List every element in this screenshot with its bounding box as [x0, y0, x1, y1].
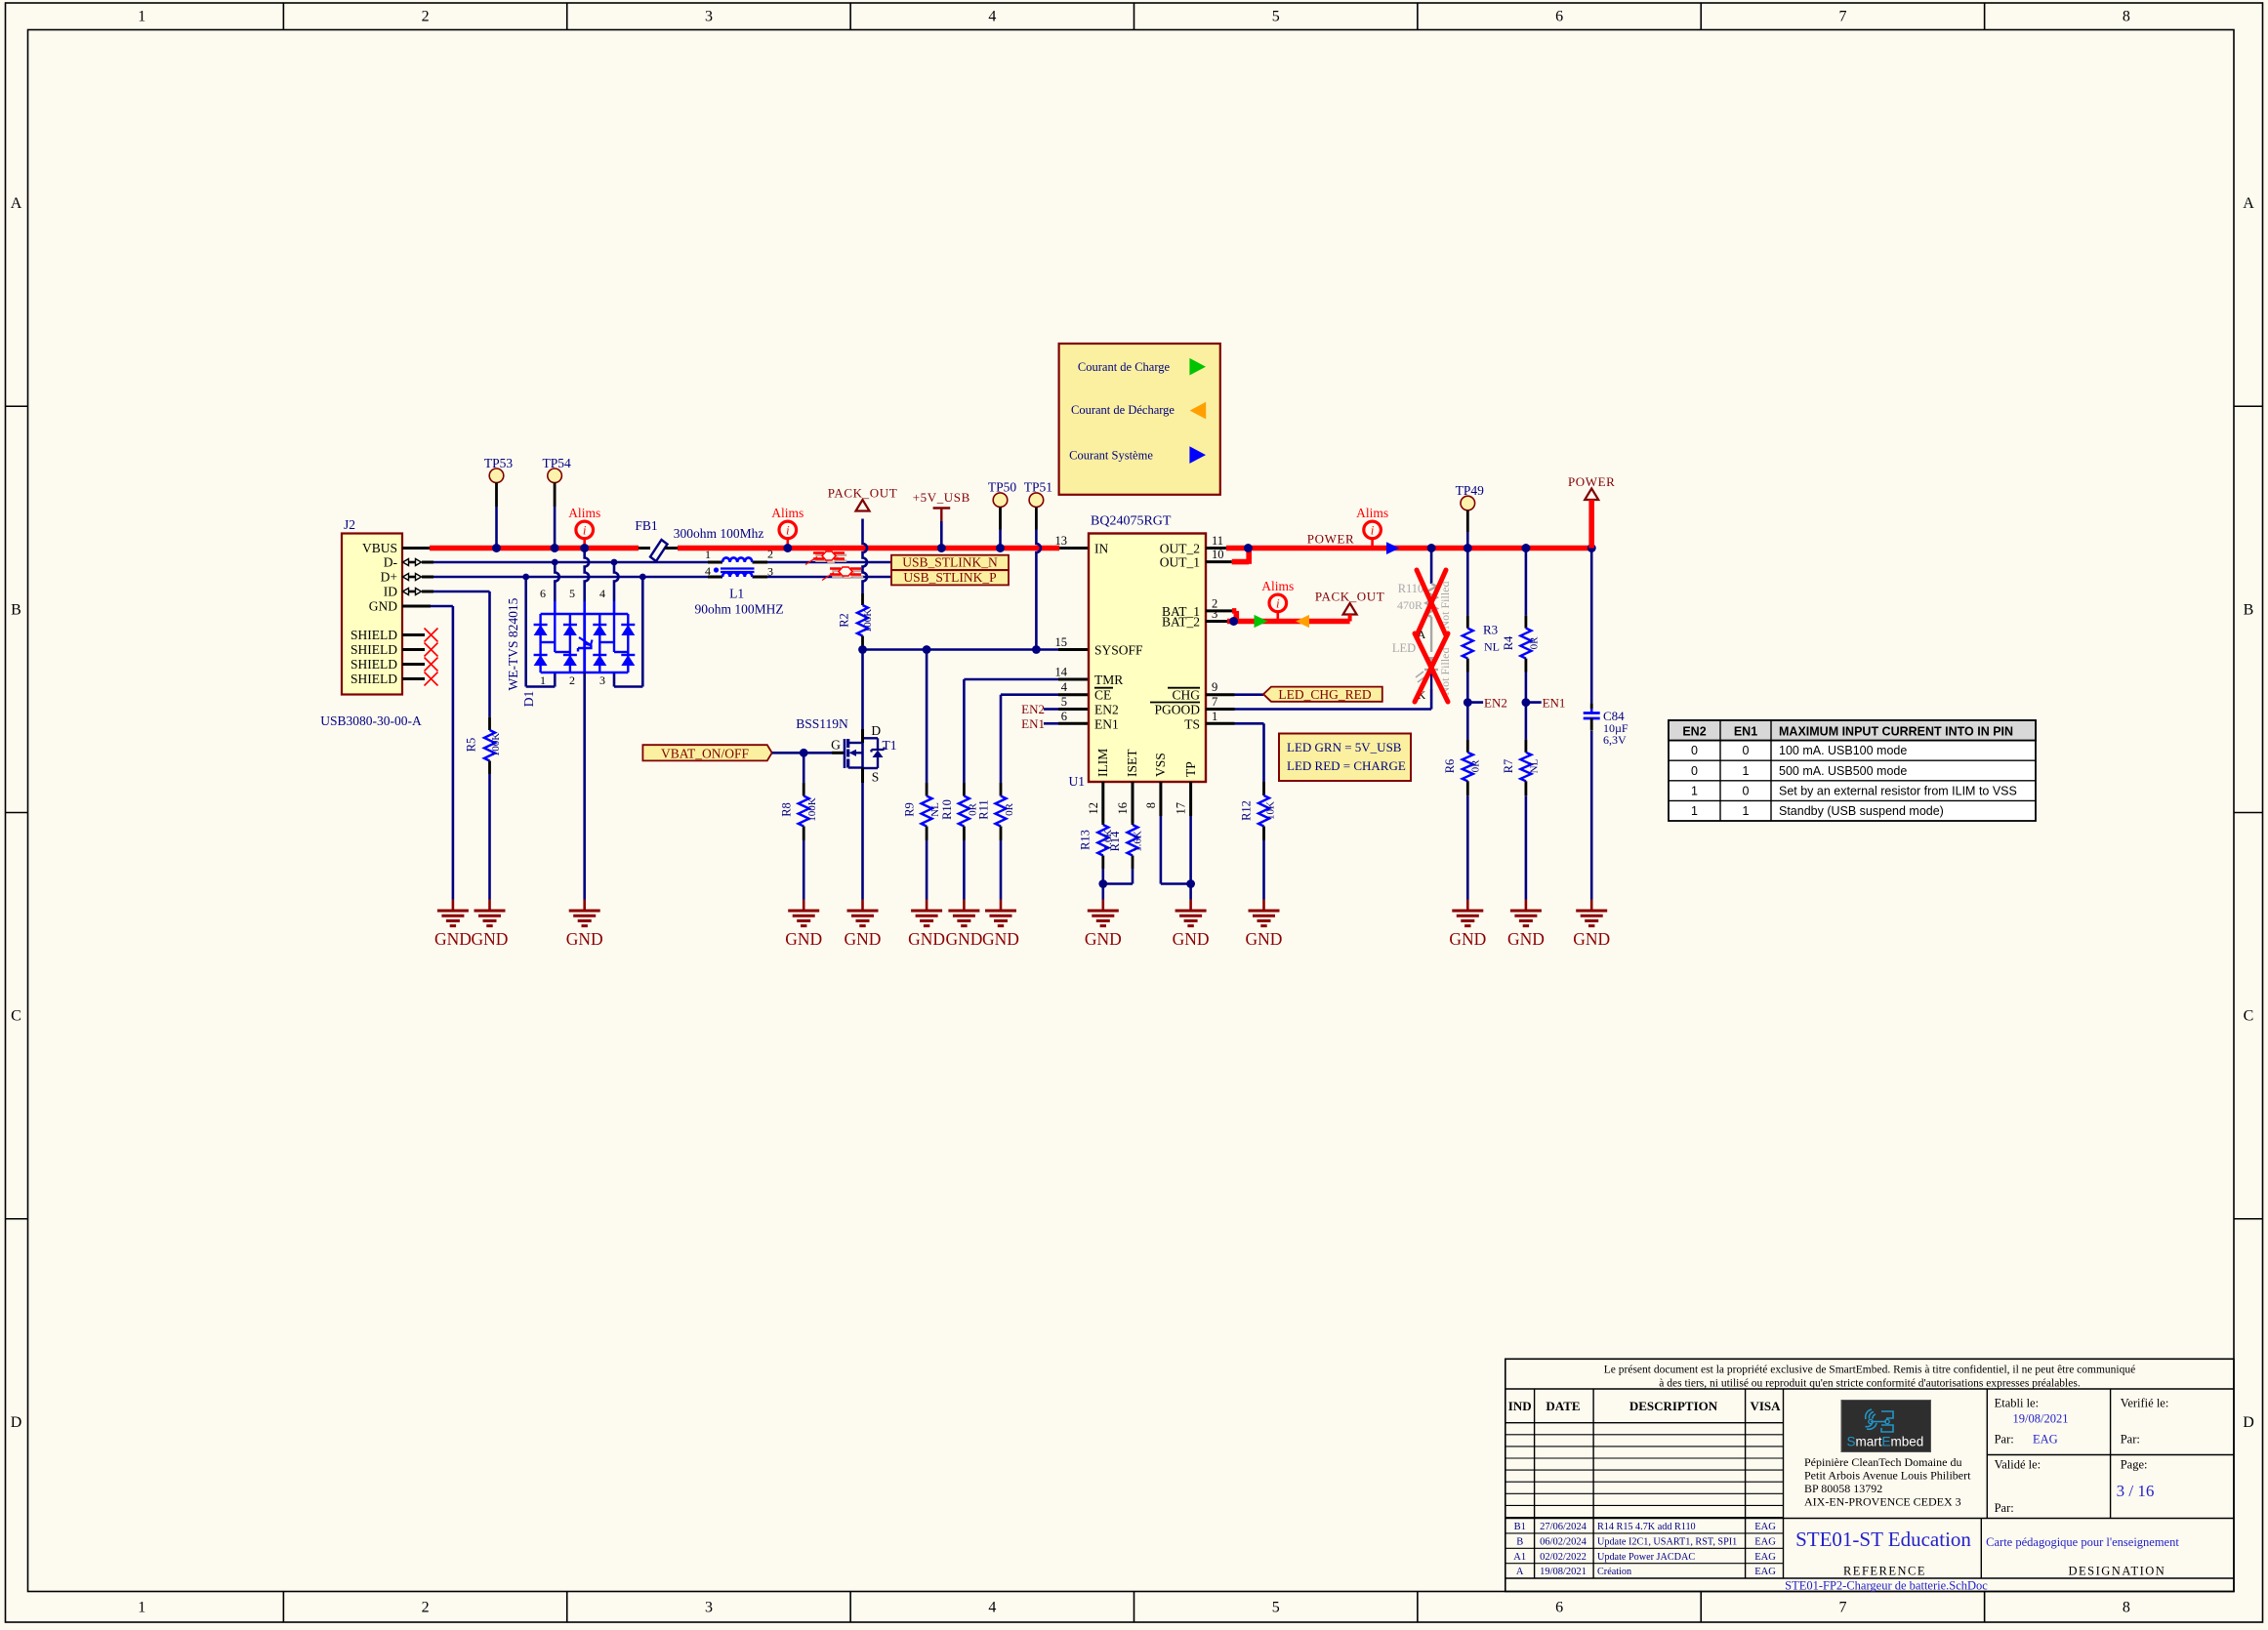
test point TP54 [542, 456, 571, 549]
net flag LED_CHG_RED [1263, 687, 1382, 702]
differential pair directive on D- [815, 555, 846, 561]
junction TP50/bus [996, 544, 1005, 552]
transistor T1 BSS119N [796, 716, 896, 785]
svg-text:GND: GND [472, 929, 509, 949]
title block [1505, 1359, 2234, 1592]
net label USB_STLINK_N [891, 555, 1009, 570]
ground R10 [963, 900, 966, 912]
wire VSS to ground node [1161, 816, 1191, 884]
svg-text:GND: GND [785, 929, 822, 949]
svg-text:5: 5 [1272, 1600, 1280, 1616]
junction BAT_1/BAT_2 [1229, 617, 1238, 626]
svg-text:7: 7 [1838, 9, 1846, 25]
svg-text:1: 1 [540, 673, 546, 687]
resistor R12 10K [1239, 782, 1276, 840]
svg-text:PGOOD: PGOOD [1154, 703, 1200, 717]
resistor R5 100K [465, 717, 503, 774]
test point TP49 [1456, 483, 1485, 549]
svg-text:D+: D+ [381, 570, 397, 585]
wire PGOOD to LED cathode [1235, 689, 1432, 710]
wire R13/R14 to ground [1103, 869, 1133, 900]
U1 pin 14 TMR stub [1058, 678, 1089, 681]
svg-text:R14 R15 4.7K add R110: R14 R15 4.7K add R110 [1597, 1522, 1696, 1532]
junction TP54/VBUS [551, 544, 559, 552]
svg-text:R7: R7 [1502, 759, 1515, 774]
svg-text:R14: R14 [1108, 831, 1122, 852]
svg-text:Courant Système: Courant Système [1069, 449, 1153, 463]
svg-text:DATE: DATE [1546, 1399, 1580, 1413]
logo SmartEmbed [1841, 1401, 1931, 1452]
D1 bottom-right wire [614, 672, 642, 687]
svg-text:7: 7 [1212, 695, 1217, 709]
svg-text:SYSOFF: SYSOFF [1094, 643, 1143, 658]
junction SYSOFF/R2 [858, 645, 867, 654]
U1 pin 12 ILIM stub [1101, 782, 1104, 823]
wire R2 to SYSOFF node [861, 648, 864, 650]
svg-text:1: 1 [1691, 804, 1698, 818]
svg-text:1: 1 [1743, 804, 1750, 818]
svg-text:Etabli le:: Etabli le: [1995, 1397, 2039, 1410]
svg-text:Courant de Charge: Courant de Charge [1078, 360, 1171, 374]
svg-text:Set by an external resistor fr: Set by an external resistor from ILIM to… [1779, 784, 2017, 797]
svg-text:100 mA. USB100 mode: 100 mA. USB100 mode [1779, 744, 1907, 757]
svg-text:D: D [2243, 1414, 2254, 1431]
svg-text:12: 12 [1087, 802, 1100, 815]
svg-text:2: 2 [767, 548, 773, 561]
svg-text:L1: L1 [729, 587, 744, 601]
U1 pin 9 CHG stub [1206, 693, 1235, 696]
svg-text:3: 3 [599, 673, 605, 687]
J2 SHIELD pin stub 4 [402, 677, 425, 680]
svg-text:Verifié le:: Verifié le: [2121, 1397, 2169, 1410]
svg-text:R10: R10 [940, 799, 954, 820]
wire R6 to ground [1466, 795, 1469, 899]
wire BAT red (PACK_OUT) [1227, 619, 1350, 625]
ground R6 [1466, 900, 1469, 912]
wire J2 ID down to R5 [433, 591, 490, 717]
svg-text:Par:: Par: [1995, 1501, 2014, 1515]
svg-text:4: 4 [1061, 680, 1068, 694]
ground R9 [926, 900, 928, 912]
J2 pin GND stub [402, 605, 431, 608]
svg-text:9: 9 [1212, 680, 1217, 694]
svg-text:SHIELD: SHIELD [351, 642, 397, 657]
svg-text:R3: R3 [1483, 623, 1498, 637]
U1 pin 10 OUT_1 stub [1206, 560, 1232, 563]
wire TP to ground [1189, 816, 1192, 900]
svg-text:10K: 10K [1265, 801, 1277, 820]
wire gate to R8 [803, 753, 805, 783]
net label EN1 stub [1526, 696, 1566, 711]
wire R3 to EN2 node [1466, 672, 1469, 703]
svg-text:3: 3 [767, 565, 773, 579]
svg-text:1: 1 [138, 9, 145, 25]
svg-text:GND: GND [1573, 929, 1610, 949]
wire R9 top [926, 650, 928, 784]
svg-text:11: 11 [1212, 534, 1223, 548]
J2 pin VBUS stub [402, 547, 431, 550]
svg-text:3: 3 [705, 9, 713, 25]
svg-text:D: D [11, 1414, 22, 1431]
current arrow orange (decharge) [1296, 615, 1309, 628]
wire bus to R4 [1525, 549, 1528, 616]
svg-text:i: i [583, 523, 587, 538]
junction Alims/VBUS [580, 544, 589, 552]
svg-text:27/06/2024: 27/06/2024 [1540, 1522, 1588, 1532]
table EN2/EN1 input current modes [1669, 720, 2036, 821]
svg-text:SHIELD: SHIELD [351, 657, 397, 672]
svg-text:R12: R12 [1239, 800, 1253, 821]
svg-text:GND: GND [1173, 929, 1210, 949]
wire VBAT_ON/OFF to T1 gate [772, 752, 832, 754]
legend box current arrows [1059, 344, 1220, 495]
wire R11 to ground [1000, 840, 1003, 900]
wire EN2 node to R6 [1466, 703, 1469, 740]
svg-text:EN2: EN2 [1094, 703, 1119, 717]
connector J2 [320, 517, 422, 728]
svg-text:Standby (USB suspend mode): Standby (USB suspend mode) [1779, 804, 1944, 818]
ground R11 [1000, 900, 1003, 912]
U1 pin 2 BAT_1 stub [1206, 609, 1232, 612]
svg-text:i: i [786, 523, 790, 538]
svg-text:R6: R6 [1443, 759, 1457, 774]
svg-text:POWER: POWER [1307, 532, 1355, 547]
current arrow blue (courant systeme) on POWER [1386, 542, 1400, 554]
svg-text:5: 5 [1272, 9, 1280, 25]
svg-text:D-: D- [384, 555, 398, 570]
D1 pin4 wire from D- [614, 562, 619, 614]
svg-text:Par:: Par: [1995, 1433, 2014, 1447]
wire C84 to ground [1590, 718, 1593, 900]
U1 pin 15 SYSOFF stub [1058, 648, 1089, 651]
svg-text:B1: B1 [1514, 1522, 1526, 1532]
svg-text:VISA: VISA [1750, 1399, 1781, 1413]
svg-text:100K: 100K [490, 733, 502, 757]
ground R13/R14 [1102, 900, 1105, 912]
svg-text:Alims: Alims [1261, 579, 1294, 593]
wire T1 drain up to SYSOFF node [861, 650, 864, 744]
svg-text:EN2: EN2 [1021, 702, 1045, 716]
wire SYSOFF net [863, 648, 1059, 651]
svg-text:OUT_1: OUT_1 [1160, 555, 1200, 570]
svg-text:Update I2C1, USART1, RST, SPI1: Update I2C1, USART1, RST, SPI1 [1597, 1536, 1737, 1547]
svg-text:Le présent document est la pro: Le présent document est la propriété exc… [1604, 1365, 2135, 1376]
net label USB_STLINK_P [891, 570, 1009, 585]
svg-text:4: 4 [705, 564, 711, 578]
svg-text:FB1: FB1 [635, 518, 657, 533]
svg-text:SHIELD: SHIELD [351, 628, 397, 642]
svg-text:3: 3 [705, 1600, 713, 1616]
net label EN1 wire at U1 [1021, 716, 1089, 731]
J2 pin D+ I/O glyph and stub [403, 574, 434, 581]
svg-text:SHIELD: SHIELD [351, 672, 397, 686]
svg-text:16: 16 [1116, 802, 1130, 815]
junction EN1 node [1522, 698, 1531, 707]
IC U1 BQ24075RGT [1055, 514, 1224, 815]
junction SYSOFF/R9 [923, 645, 931, 654]
svg-text:17: 17 [1175, 802, 1188, 815]
svg-text:6,3V: 6,3V [1603, 733, 1627, 747]
wire R7 to ground [1525, 795, 1528, 899]
junction pin4/D- [611, 559, 618, 566]
J2 pin D- I/O glyph and stub [403, 559, 434, 566]
note box LED meanings [1279, 734, 1411, 782]
svg-text:GND: GND [369, 599, 397, 614]
svg-text:GND: GND [1246, 929, 1283, 949]
svg-text:8: 8 [1144, 802, 1158, 808]
junction R4/bus [1521, 544, 1530, 552]
net label EN2 stub [1467, 696, 1507, 711]
svg-text:VBAT_ON/OFF: VBAT_ON/OFF [661, 746, 750, 760]
svg-text:MAXIMUM INPUT CURRENT INTO IN: MAXIMUM INPUT CURRENT INTO IN PIN [1779, 725, 2013, 739]
svg-text:6: 6 [1555, 1600, 1563, 1616]
power port PACK_OUT (at BAT) [1315, 590, 1385, 622]
svg-text:ISET: ISET [1125, 749, 1139, 777]
resistor R110 470R not fitted (crossed out) [1397, 549, 1452, 636]
svg-text:EN2: EN2 [1484, 696, 1507, 711]
wire bus to R3 [1466, 549, 1469, 616]
svg-text:8: 8 [2123, 9, 2130, 25]
svg-text:IN: IN [1094, 542, 1108, 556]
wire J2 GND to ground [431, 606, 453, 900]
TVS diode array D1 WE-TVS 824015 [506, 587, 605, 707]
U1 pin 16 ISET stub [1132, 782, 1134, 823]
svg-text:BP 80058 13792: BP 80058 13792 [1804, 1482, 1882, 1495]
svg-text:C: C [11, 1008, 21, 1025]
svg-text:R2: R2 [838, 613, 851, 628]
junction rail/D+ right [639, 574, 646, 581]
svg-text:A: A [1516, 1567, 1524, 1577]
svg-text:1: 1 [705, 548, 711, 561]
power port POWER (top right) [1568, 474, 1616, 549]
svg-text:1.6K: 1.6K [1133, 831, 1144, 852]
svg-text:0: 0 [1743, 784, 1750, 797]
svg-text:2: 2 [422, 9, 430, 25]
U1 pin 7 PGOOD stub [1206, 708, 1235, 711]
net label EN2 wire at U1 [1021, 702, 1089, 716]
svg-text:G: G [831, 738, 841, 753]
svg-text:Alims: Alims [771, 506, 804, 520]
wire D+ (L1 to USB_STLINK_P) [767, 576, 891, 579]
svg-text:13: 13 [1055, 534, 1068, 548]
svg-text:AIX-EN-PROVENCE CEDEX 3: AIX-EN-PROVENCE CEDEX 3 [1804, 1495, 1961, 1509]
svg-text:19/08/2021: 19/08/2021 [2013, 1412, 2069, 1426]
U1 pin 17 TP stub [1189, 782, 1192, 816]
ground under D1 [583, 900, 586, 912]
svg-text:R5: R5 [465, 738, 478, 753]
wire D+ (J2 to L1) [433, 576, 708, 579]
junction TP53/VBUS [492, 544, 501, 552]
svg-text:EN1: EN1 [1021, 716, 1045, 731]
resistor R9 NL [903, 783, 942, 840]
junction +5V_USB/bus [937, 544, 946, 552]
svg-text:EAG: EAG [2033, 1433, 2058, 1447]
wire TMR net to R10 [964, 679, 1058, 783]
wire EN1 node to R7 [1525, 703, 1528, 740]
wire PACK_OUT down across bus and data lines to R2 [863, 519, 868, 594]
svg-text:i: i [1371, 523, 1375, 538]
svg-text:NL: NL [1484, 639, 1500, 653]
svg-text:0: 0 [1691, 744, 1698, 757]
svg-text:EAG: EAG [1754, 1552, 1776, 1563]
svg-text:Alims: Alims [1356, 506, 1388, 520]
svg-text:B: B [11, 601, 21, 618]
resistor R3 NL [1463, 616, 1500, 672]
svg-text:à des tiers, ni utilisé ou rep: à des tiers, ni utilisé ou reproduit qu'… [1659, 1378, 2081, 1390]
svg-text:2: 2 [422, 1600, 430, 1616]
svg-text:Validé le:: Validé le: [1995, 1458, 2041, 1472]
svg-text:10: 10 [1212, 548, 1224, 561]
svg-text:STE01-ST Education: STE01-ST Education [1795, 1528, 1971, 1551]
svg-text:3 / 16: 3 / 16 [2117, 1482, 2155, 1500]
svg-text:Courant de Décharge: Courant de Décharge [1071, 403, 1175, 417]
svg-text:CHG: CHG [1172, 688, 1200, 703]
resistor R2 100K [838, 593, 875, 648]
resistor R4 0R [1502, 616, 1541, 672]
svg-text:EAG: EAG [1754, 1536, 1776, 1547]
LED LED? not fitted (crossed out) [1392, 617, 1452, 702]
wire BAT_1 red elbow [1232, 611, 1236, 619]
test point TP51 [1024, 480, 1052, 650]
D1 internal diode network [534, 614, 636, 672]
svg-text:BQ24075RGT: BQ24075RGT [1091, 514, 1172, 529]
svg-text:EAG: EAG [1754, 1522, 1776, 1532]
svg-text:CE: CE [1094, 688, 1111, 703]
U1 pin 11 OUT_2 stub [1206, 547, 1226, 550]
D1 pin2 wire to GND [583, 672, 586, 900]
svg-text:IND: IND [1508, 1399, 1532, 1413]
svg-text:5: 5 [569, 587, 575, 600]
svg-text:1: 1 [138, 1600, 145, 1616]
svg-text:Par:: Par: [2121, 1433, 2140, 1447]
svg-text:B: B [2244, 601, 2254, 618]
svg-text:BSS119N: BSS119N [796, 716, 848, 731]
svg-text:D: D [871, 723, 881, 738]
net flag VBAT_ON/OFF [642, 745, 771, 760]
svg-text:USB_STLINK_P: USB_STLINK_P [903, 570, 996, 585]
svg-text:EN2: EN2 [1682, 725, 1706, 739]
svg-text:EN1: EN1 [1543, 696, 1566, 711]
ground J2 GND [452, 900, 455, 912]
svg-text:LED RED = CHARGE: LED RED = CHARGE [1287, 758, 1406, 773]
svg-text:GND: GND [945, 929, 982, 949]
svg-text:R8: R8 [780, 802, 794, 817]
resistor R6 0R [1443, 740, 1482, 796]
J2 SHIELD pin stub 1 [402, 633, 425, 636]
wire R10 to ground [963, 840, 966, 900]
svg-text:4: 4 [599, 587, 605, 600]
wire R9 to ground [926, 840, 928, 900]
svg-text:1: 1 [1743, 764, 1750, 778]
resistor R8 100K [780, 783, 819, 840]
svg-text:14: 14 [1055, 666, 1068, 679]
J2 pin ID I/O glyph and stub [403, 589, 434, 595]
svg-text:SmartEmbed: SmartEmbed [1847, 1435, 1924, 1449]
svg-text:GND: GND [1085, 929, 1122, 949]
svg-text:Petit Arbois Avenue Louis Phil: Petit Arbois Avenue Louis Philibert [1804, 1469, 1971, 1483]
differential pair directive on D+ [832, 571, 863, 577]
svg-text:06/02/2024: 06/02/2024 [1540, 1536, 1588, 1547]
no-connect X on SHIELD 1 [425, 629, 438, 642]
svg-text:U1: U1 [1069, 774, 1086, 789]
U1 pin 3 BAT_2 stub [1206, 620, 1227, 623]
svg-text:TS: TS [1184, 716, 1200, 731]
svg-text:1: 1 [1691, 784, 1698, 797]
svg-text:A: A [2243, 195, 2254, 212]
junction R13/R14 ground node [1098, 879, 1107, 888]
svg-text:VSS: VSS [1153, 753, 1168, 777]
svg-text:GND: GND [1507, 929, 1545, 949]
J2 SHIELD pin stub 3 [402, 663, 425, 666]
junction VSS/TP ground node [1186, 879, 1195, 888]
svg-text:Pépinière CleanTech Domaine du: Pépinière CleanTech Domaine du [1804, 1455, 1961, 1469]
wire R4 to EN1 node [1525, 672, 1528, 703]
svg-text:500 mA. USB500 mode: 500 mA. USB500 mode [1779, 764, 1907, 778]
svg-text:0R: 0R [1470, 759, 1482, 773]
svg-text:5: 5 [1061, 695, 1067, 709]
no-connect X on SHIELD 2 [425, 643, 438, 657]
current arrow green (charge) [1255, 615, 1268, 628]
svg-text:TP: TP [1183, 761, 1198, 777]
resistor R7 NL [1502, 740, 1541, 796]
svg-text:C: C [2244, 1008, 2254, 1025]
no-connect X on SHIELD 4 [425, 672, 438, 686]
svg-text:19/08/2021: 19/08/2021 [1540, 1567, 1587, 1577]
wire CHG to LED_CHG_RED [1235, 693, 1264, 696]
svg-text:DESIGNATION: DESIGNATION [2068, 1565, 2165, 1578]
svg-text:GND: GND [845, 929, 882, 949]
ground VSS/TP [1189, 900, 1192, 912]
svg-text:3: 3 [1212, 607, 1217, 621]
wire VBUS red power bus (J2 to FB1) [430, 546, 639, 551]
ground T1 [861, 900, 864, 912]
svg-text:VBUS: VBUS [362, 541, 397, 555]
ground R5 [488, 900, 491, 912]
svg-text:GND: GND [1449, 929, 1486, 949]
wire CE net to R11 [1001, 695, 1058, 783]
svg-text:R13: R13 [1079, 830, 1093, 850]
svg-text:TMR: TMR [1094, 672, 1123, 687]
U1 pin 4 CE stub [1058, 693, 1089, 696]
svg-text:NL: NL [1529, 758, 1541, 773]
wire D- (L1 to USB_STLINK_N) [767, 561, 891, 564]
svg-text:WE-TVS 824015: WE-TVS 824015 [506, 597, 520, 690]
capacitor C84 10uF [1584, 709, 1629, 747]
wire POWER red bus [1226, 546, 1591, 551]
svg-text:4: 4 [988, 1600, 996, 1616]
svg-text:DESCRIPTION: DESCRIPTION [1629, 1399, 1718, 1413]
ferrite bead FB1 [635, 518, 678, 561]
company address [1804, 1455, 1971, 1509]
junction EN2 node [1464, 698, 1472, 707]
svg-text:2: 2 [569, 673, 575, 687]
svg-text:R11: R11 [977, 799, 991, 819]
T1 gate pin stub [832, 752, 845, 754]
svg-text:A: A [11, 195, 22, 212]
svg-text:100K: 100K [806, 797, 818, 822]
svg-text:Update Power JACDAC: Update Power JACDAC [1597, 1552, 1695, 1563]
svg-text:LED GRN = 5V_USB: LED GRN = 5V_USB [1287, 740, 1402, 754]
svg-text:0R: 0R [1004, 802, 1015, 816]
svg-text:GND: GND [982, 929, 1019, 949]
ground R8 [803, 900, 805, 912]
svg-text:90ohm 100MHZ: 90ohm 100MHZ [694, 602, 783, 617]
svg-text:0R: 0R [1529, 636, 1541, 650]
svg-text:Création: Création [1597, 1567, 1631, 1577]
D1 left rail wire from D+ [524, 577, 527, 687]
wire T1 source to ground [861, 768, 864, 900]
junction C84/bus [1588, 544, 1596, 552]
